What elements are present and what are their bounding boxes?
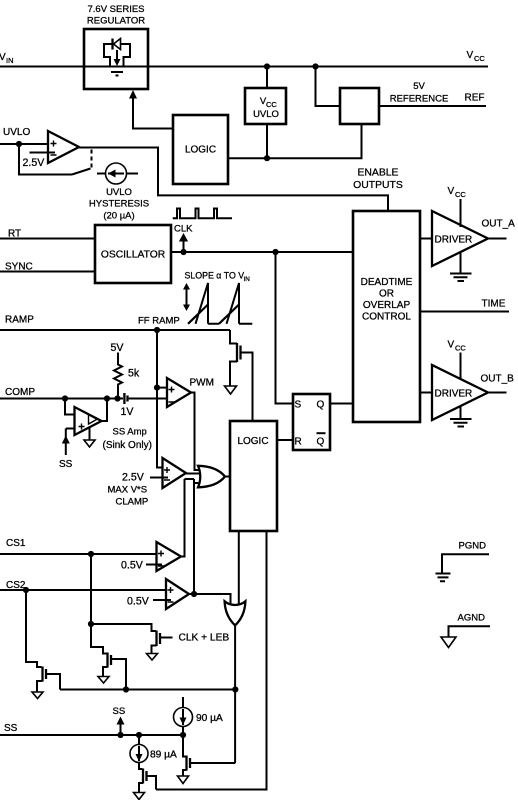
wire logic2 to OR2 input	[238, 531, 240, 605]
current source 90uA	[182, 697, 184, 708]
wire deadtime to driver B	[420, 392, 432, 394]
node junction CLK arrow	[180, 249, 186, 255]
node junction OR2 rail	[232, 686, 238, 692]
wire VIN through regulator	[84, 66, 148, 68]
driver A	[432, 211, 488, 266]
transistor Q5 SS clamp	[185, 756, 187, 771]
svg-text:FF RAMP: FF RAMP	[138, 316, 180, 327]
svg-text:0.5V: 0.5V	[127, 596, 150, 608]
comparator PWM	[167, 378, 191, 407]
svg-text:0.5V: 0.5V	[121, 560, 144, 572]
wire OR1 output to logic2	[226, 476, 231, 478]
switch blade	[72, 169, 91, 175]
svg-text:UVLO: UVLO	[253, 109, 279, 120]
wire OR2 output down	[234, 625, 236, 763]
svg-text:V: V	[448, 186, 455, 197]
svg-text:ENABLE: ENABLE	[357, 168, 398, 179]
svg-text:IN: IN	[6, 56, 14, 65]
svg-text:RAMP: RAMP	[5, 315, 34, 326]
svg-text:89 µA: 89 µA	[150, 750, 177, 761]
wire CS1 vertical to Q3 and blanking	[90, 554, 92, 624]
wire VCC stub driver A	[460, 199, 462, 227]
arrowhead into regulator	[129, 90, 137, 99]
wire CLK arrow up	[183, 242, 185, 253]
svg-text:MAX V*S: MAX V*S	[108, 485, 148, 496]
or-gate OR2	[225, 601, 246, 625]
node junction VIN / REF feed	[312, 63, 318, 69]
node junction FF RAMP	[154, 327, 160, 333]
current source UVLO hysteresis	[97, 173, 138, 175]
svg-text:OVERLAP: OVERLAP	[363, 300, 411, 311]
svg-text:5V: 5V	[413, 81, 425, 92]
svg-text:CLK + LEB: CLK + LEB	[179, 633, 230, 644]
wire OUT_B	[488, 392, 507, 394]
wire to PWM plus	[157, 387, 167, 389]
svg-text:LOGIC: LOGIC	[185, 145, 216, 156]
wire REF output	[379, 105, 486, 107]
svg-text:7.6V SERIES: 7.6V SERIES	[87, 4, 144, 15]
ground agnd under SS amp	[89, 428, 91, 441]
node junction SS arrow	[117, 732, 123, 738]
node junction SS amp top input	[62, 395, 68, 401]
wire VCC-UVLO bottom stub	[266, 124, 268, 158]
regulator internal ground tick	[111, 72, 123, 76]
node junction CS2 output	[191, 591, 197, 597]
transistor Q1 FF ramp discharge	[230, 330, 237, 344]
comparator CS2 0.5V	[166, 579, 189, 609]
wire RAMP input	[0, 329, 230, 331]
wire UVLO input	[0, 143, 48, 145]
wire CS1 input	[0, 553, 157, 555]
wire ramp vertical to PWM and clamp	[157, 330, 163, 468]
svg-text:DRIVER: DRIVER	[435, 235, 473, 246]
or-gate OR1	[198, 466, 225, 488]
svg-text:OUT_B: OUT_B	[481, 374, 515, 385]
svg-text:(Sink Only): (Sink Only)	[103, 440, 152, 451]
node junction PWM plus input	[154, 385, 160, 391]
waveform clock pulses	[173, 209, 232, 219]
waveform slope double arrow	[186, 288, 188, 306]
node junction CS2	[23, 587, 29, 593]
wire logic2 R input	[277, 439, 293, 441]
node junction CS1	[88, 551, 94, 557]
svg-text:CC: CC	[455, 190, 466, 199]
block DEADTIME OR OVERLAP CONTROL	[353, 211, 420, 422]
op-amp SS Amp	[65, 399, 75, 415]
comparator 2.5V clamp	[163, 458, 187, 488]
block LOGIC box (top)	[173, 115, 228, 184]
svg-text:SS: SS	[59, 459, 73, 470]
ground pgnd driver B	[460, 406, 462, 419]
node junction resistor bottom	[114, 395, 120, 401]
node junction CS1 blanking	[88, 621, 94, 627]
svg-text:OR: OR	[379, 289, 394, 300]
svg-text:Q: Q	[317, 400, 325, 411]
ground agnd under Q5	[178, 776, 189, 784]
latch SR flip-flop	[293, 394, 330, 450]
svg-text:REGULATOR: REGULATOR	[87, 16, 145, 27]
wire discharge rail	[60, 689, 235, 691]
node 2.5V stub	[30, 152, 56, 154]
waveform sawtooth	[208, 323, 252, 325]
regulator U1 box	[84, 29, 148, 89]
wire CS inputs to OR1	[185, 479, 200, 483]
wire clamp output	[186, 473, 200, 475]
driver B	[432, 365, 488, 420]
svg-text:COMP: COMP	[5, 387, 35, 398]
comparator UVLO	[48, 131, 79, 163]
svg-text:OUT_A: OUT_A	[482, 219, 516, 230]
svg-text:TIME: TIME	[482, 299, 506, 310]
svg-text:2.5V: 2.5V	[122, 472, 145, 484]
block OSCILLATOR box	[95, 225, 171, 283]
wire OUT_A	[488, 238, 507, 240]
wire SYNC input	[0, 271, 95, 273]
svg-text:SLOPE α TO V: SLOPE α TO V	[185, 271, 245, 281]
node 2.5V clamp stub	[150, 477, 168, 479]
node junction enable line	[264, 155, 270, 161]
regulator internal pass-device tub	[104, 44, 130, 67]
svg-text:2.5V: 2.5V	[23, 157, 46, 169]
battery 1V offset	[123, 393, 125, 404]
svg-text:CC: CC	[266, 100, 277, 109]
current source 89uA	[138, 735, 140, 745]
block 5V reference box	[340, 88, 379, 124]
svg-text:HYSTERESIS: HYSTERESIS	[89, 199, 149, 210]
svg-text:CC: CC	[455, 344, 466, 353]
transistor Q3 CS1 pulldown	[91, 624, 107, 654]
resistor R1 5k	[114, 353, 122, 399]
node 0.5V stub CS1	[146, 564, 162, 566]
wire PWM output down to OR gate	[191, 393, 200, 471]
wire CS2 output	[189, 594, 231, 604]
wire SS amp output up to COMP	[102, 399, 108, 422]
wire UVLO feedback to switch	[19, 144, 72, 175]
block LOGIC box (pwm logic)	[230, 421, 277, 531]
wire deadtime to driver A	[420, 238, 432, 240]
svg-text:(20 µA): (20 µA)	[103, 211, 134, 222]
svg-text:CC: CC	[474, 54, 485, 63]
wire RT input	[0, 238, 95, 240]
svg-text:Q: Q	[317, 437, 325, 448]
regulator internal diode D1	[104, 43, 130, 45]
svg-text:CLK: CLK	[174, 224, 193, 235]
transistor Q2 CS2 pulldown	[26, 590, 42, 667]
svg-text:CONTROL: CONTROL	[362, 312, 411, 323]
ground agnd under Q1	[225, 386, 237, 394]
svg-text:DEADTIME: DEADTIME	[361, 277, 413, 288]
wire CS2 output up to OR1	[193, 479, 195, 594]
ground agnd under Q2	[32, 692, 43, 699]
transistor Q4 CLK+LEB blanking	[155, 631, 157, 647]
ground agnd under Q3	[98, 677, 109, 684]
wire CLK line to deadtime	[171, 251, 353, 253]
svg-text:OUTPUTS: OUTPUTS	[353, 180, 403, 191]
regulator internal current arrow	[116, 50, 118, 59]
svg-text:SS: SS	[4, 723, 18, 734]
svg-text:R: R	[295, 437, 302, 448]
node 0.5V stub CS2	[153, 599, 171, 601]
svg-text:LOGIC: LOGIC	[237, 436, 268, 447]
node junction VIN / VCC-UVLO	[264, 63, 270, 69]
wire TIME output	[420, 311, 509, 313]
wire SS input	[0, 734, 183, 736]
svg-text:V: V	[448, 340, 455, 351]
svg-text:UVLO: UVLO	[3, 127, 30, 138]
svg-text:OSCILLATOR: OSCILLATOR	[101, 250, 165, 261]
comparator CS1 0.5V	[157, 542, 182, 571]
svg-text:5V: 5V	[111, 342, 125, 354]
svg-text:CS1: CS1	[6, 538, 26, 549]
svg-text:1V: 1V	[121, 406, 135, 418]
wire logic2 to SS gate line	[156, 531, 267, 790]
svg-text:V: V	[467, 50, 474, 61]
wire enable from logic to reference	[228, 124, 362, 158]
wire UVLO comparator output to deadtime	[79, 148, 388, 212]
svg-text:CLAMP: CLAMP	[116, 497, 149, 508]
node junction SS amp output	[104, 395, 110, 401]
ground agnd under Q6	[134, 793, 145, 800]
svg-text:SS: SS	[113, 706, 126, 717]
node SS up arrow	[120, 724, 122, 735]
wire CLK to latch S input	[276, 252, 294, 404]
svg-text:REF: REF	[465, 93, 485, 104]
wire dashed comparator control	[91, 150, 93, 171]
wire COMP input	[0, 398, 123, 400]
svg-text:AGND: AGND	[458, 613, 486, 624]
svg-text:REFERENCE: REFERENCE	[390, 94, 449, 105]
wire CS2 input	[0, 589, 166, 591]
svg-text:SS Amp: SS Amp	[113, 427, 147, 438]
wire VCC stub driver B	[460, 353, 462, 381]
svg-text:S: S	[295, 400, 302, 411]
node junction CLK to latch S	[272, 249, 278, 255]
wire COMP to PWM minus	[129, 398, 167, 400]
block VCC UVLO box	[245, 88, 286, 124]
ground pgnd driver A	[460, 252, 462, 274]
transistor Q6 SS discharge	[139, 763, 143, 770]
wire 90uA to SS line and Q5	[183, 727, 187, 757]
svg-text:IN: IN	[244, 276, 251, 283]
svg-text:PGND: PGND	[459, 541, 487, 552]
wire latch Q to deadtime	[330, 403, 353, 405]
node junction 90uA	[180, 732, 186, 738]
wire VIN rail	[0, 66, 488, 68]
svg-text:PWM: PWM	[190, 378, 214, 389]
wire REF feed	[316, 67, 341, 107]
svg-text:UVLO: UVLO	[106, 187, 132, 198]
svg-text:DRIVER: DRIVER	[435, 389, 473, 400]
ground agnd under Q4	[147, 654, 158, 661]
svg-text:5k: 5k	[128, 368, 140, 380]
wire CS1 output up to OR1	[181, 479, 185, 557]
wire blanking line to Q4	[91, 624, 156, 631]
node junction UVLO	[16, 141, 22, 147]
node junction rail Q3 gate	[123, 686, 129, 692]
wire VCC-UVLO top stub	[266, 67, 268, 89]
node junction 89uA	[136, 732, 142, 738]
svg-text:90 µA: 90 µA	[196, 713, 223, 724]
wire logic to regulator drive	[133, 98, 173, 129]
